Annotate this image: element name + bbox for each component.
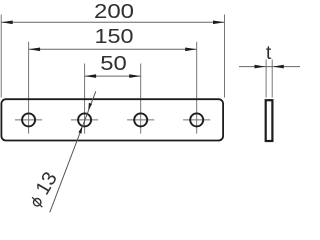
svg-text:50: 50 — [100, 53, 127, 75]
svg-text:150: 150 — [95, 26, 134, 48]
svg-text:200: 200 — [94, 1, 134, 23]
svg-text:t: t — [266, 42, 272, 64]
